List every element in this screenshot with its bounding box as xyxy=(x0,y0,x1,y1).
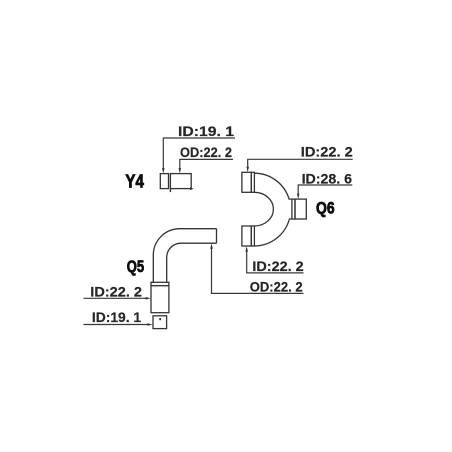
svg-text:ID:22. 2: ID:22. 2 xyxy=(252,258,304,274)
svg-text:ID:22. 2: ID:22. 2 xyxy=(301,143,353,159)
Y4 wide rect left edge overshoot xyxy=(169,189,171,193)
leader ID:28.6 xyxy=(298,185,352,195)
Y4 coupler body wide rect xyxy=(170,174,191,189)
Q6 outer arc bottom segment xyxy=(254,219,292,246)
Q6 return bend outer arc top segment xyxy=(242,172,306,246)
svg-text:ID:28. 6: ID:28. 6 xyxy=(302,170,353,186)
Q6 bottom socket xyxy=(242,226,251,246)
Q6 inner arc xyxy=(254,192,273,226)
Q6 right socket xyxy=(292,199,295,219)
Q5 outer edge: arm top + outer arc + left edge xyxy=(153,229,216,283)
svg-text:Q6: Q6 xyxy=(316,198,335,217)
svg-text:ID:22. 2: ID:22. 2 xyxy=(90,283,142,299)
Q6 top socket xyxy=(242,172,251,192)
leader ID:22.2 (Q6 top) xyxy=(248,159,353,168)
svg-text:ID:19. 1: ID:19. 1 xyxy=(92,309,141,325)
svg-text:Q5: Q5 xyxy=(127,257,144,276)
Y4 small arrow at bottom right xyxy=(190,187,194,190)
svg-text:ID:19. 1: ID:19. 1 xyxy=(178,123,234,139)
Q5 socket dot xyxy=(159,318,161,320)
Q5 collar top band line xyxy=(151,285,169,287)
Q5 inner edge: arm bottom + inner arc + right edge xyxy=(167,243,217,282)
leader ID:22.2 (Q6 bottom) xyxy=(247,250,304,273)
Q5 collar xyxy=(151,282,169,312)
leader OD:22.2 (bottom, to Q5 arm) xyxy=(212,247,304,293)
leader OD:22.2 top xyxy=(180,159,233,169)
svg-text:OD:22. 2: OD:22. 2 xyxy=(180,144,232,160)
Q5 socket xyxy=(153,316,167,329)
svg-text:Y4: Y4 xyxy=(125,171,143,191)
svg-text:OD:22. 2: OD:22. 2 xyxy=(250,278,303,294)
leader ID:22.2 (left) xyxy=(84,297,148,299)
leader ID:19.1 top xyxy=(163,138,235,170)
Y4 coupler body narrow rect xyxy=(160,174,168,189)
leader ID:19.1 (left) xyxy=(84,324,150,326)
Q5 elbow outline xyxy=(151,229,217,329)
Q5 end cap right xyxy=(216,229,218,244)
